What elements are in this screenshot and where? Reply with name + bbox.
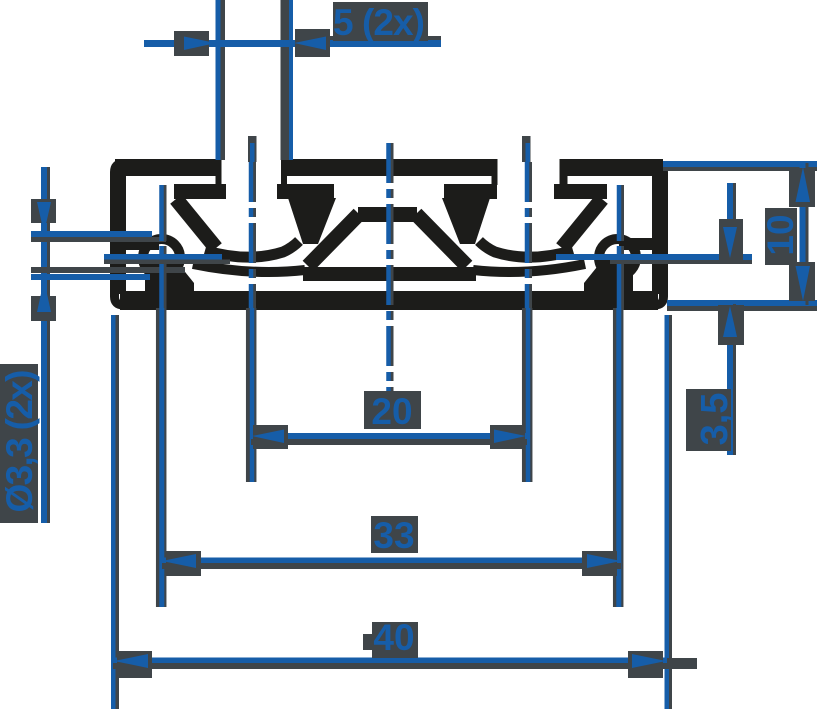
hole left — [143, 239, 180, 276]
dim 40 ext right — [669, 315, 672, 709]
trapezoid base — [303, 267, 476, 281]
slot1 left opening wall — [216, 159, 222, 185]
slot2 left flank — [442, 198, 490, 244]
dim d3,3 arrow boxes — [31, 199, 56, 223]
dim d3,3 arrows — [37, 202, 51, 233]
slot1 right opening wall — [281, 159, 287, 185]
trapezoid right side — [416, 214, 467, 266]
left wall inner band — [117, 172, 126, 294]
top wall segment left — [115, 159, 216, 176]
dim 10 arrows — [796, 167, 811, 202]
dim 5 (2x) ext line right — [281, 0, 290, 160]
dim d3,3 line — [47, 167, 50, 523]
dim 3,5 lower segment — [733, 304, 736, 455]
slot1 right flank — [288, 198, 336, 244]
svg-text:10: 10 — [760, 214, 801, 255]
centerline middle — [391, 143, 394, 391]
slot1 left flank — [176, 199, 216, 248]
svg-text:3,5: 3,5 — [694, 393, 736, 446]
dim 20 line — [251, 439, 527, 445]
dim d3,3 ext bottom — [31, 267, 185, 273]
left web — [145, 257, 194, 292]
dim 20 arrow boxes — [253, 425, 288, 449]
dim 5 (2x) ext line left — [221, 0, 226, 160]
trapezoid left side — [308, 214, 359, 266]
dim 40 text — [372, 622, 418, 658]
slot1 floor upper — [205, 241, 299, 257]
slot2 left opening wall — [492, 159, 498, 185]
dim d3,3 text — [0, 364, 38, 523]
slot2 floor upper — [479, 241, 573, 257]
dim 40 arrows — [114, 654, 148, 668]
dim 40 arrow boxes — [117, 651, 152, 678]
top wall segment right — [566, 159, 664, 176]
centerline hole right vertical — [621, 185, 624, 310]
dim 3,5 text — [686, 389, 731, 451]
slot1 floor lower — [193, 264, 305, 272]
dim 33 line — [162, 563, 621, 569]
right wall inner band — [652, 172, 661, 294]
dim 3,5 upper segment — [733, 183, 736, 259]
dim d3,3 ext top — [31, 237, 166, 242]
slot2 floor lower — [473, 264, 585, 272]
slot2 left nose — [444, 184, 497, 199]
dim 5 (2x) line — [300, 36, 441, 42]
top wall segment middle — [287, 159, 492, 176]
dim 10 line — [806, 163, 809, 305]
right web — [584, 257, 633, 292]
centerline slot1 top — [248, 136, 257, 162]
left ledge — [126, 238, 159, 250]
dim 5 (2x) arrows — [184, 37, 216, 51]
dim 40 line — [113, 663, 667, 669]
slot1 left nose — [174, 184, 226, 199]
slot1 right nose — [277, 184, 334, 199]
slot2 right nose — [554, 184, 607, 199]
bottom wall band — [120, 291, 658, 310]
svg-text:5 (2x): 5 (2x) — [333, 2, 425, 43]
centerline hole left horizontal — [104, 260, 230, 265]
slot2 right opening wall — [560, 159, 568, 185]
dim 5 (2x) text — [333, 2, 428, 41]
centerline hole left vertical — [164, 185, 167, 310]
dim 5 (2x) arrow boxes — [174, 31, 209, 56]
hole right — [599, 239, 636, 276]
dim 10 text — [765, 208, 797, 265]
trapezoid top bar — [358, 207, 417, 222]
dim 10 arrow boxes — [789, 168, 815, 207]
right ledge — [619, 238, 652, 250]
svg-text:40: 40 — [373, 617, 414, 658]
dim 20 text — [364, 391, 421, 429]
dim 40 ext left — [116, 315, 120, 709]
svg-text:Ø3,3 (2x): Ø3,3 (2x) — [0, 370, 40, 513]
dim 33 arrows — [162, 554, 196, 568]
dim 10 ext top — [663, 167, 817, 171]
centerline slot1 — [253, 162, 256, 310]
profile outer contour — [115, 164, 664, 306]
dim 33 text — [371, 516, 418, 553]
dim 10 ext bottom — [667, 306, 817, 311]
slot2 right flank — [562, 199, 602, 248]
centerline slot2 — [529, 162, 532, 310]
dim 20 arrows — [252, 430, 284, 444]
svg-text:33: 33 — [373, 515, 414, 556]
dim 33 arrow boxes — [166, 551, 201, 576]
svg-text:20: 20 — [371, 391, 412, 432]
centerline hole right horizontal / 3,5 ext — [610, 259, 752, 264]
centerline slot2 top — [522, 136, 531, 162]
